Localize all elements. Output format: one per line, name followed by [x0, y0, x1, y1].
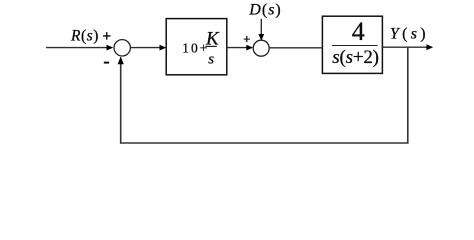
arrowhead: input into summing junction S1 [107, 45, 114, 51]
svg-text:+: + [102, 28, 111, 45]
wire: input R(s) [46, 47, 107, 49]
arrowhead: output (right) [426, 44, 433, 50]
wire: D(s) disturbance drop [260, 19, 262, 35]
summing junction S1 [114, 40, 130, 56]
sign + (S2 left input) [243, 33, 250, 47]
arrowhead: into block G1 [160, 45, 167, 51]
wire: feedback right vertical [407, 47, 409, 143]
summing junction S2 [253, 40, 269, 56]
wire: S2 to block G2 [269, 47, 322, 49]
label D(s) [248, 2, 281, 19]
svg-text:4: 4 [352, 17, 365, 46]
sign − (feedback input) [104, 62, 109, 64]
wire: G1 to summing junction S2 [227, 47, 247, 49]
label R(s) [70, 28, 99, 45]
label Y(s) [390, 26, 429, 43]
wire: feedback left vertical [120, 63, 122, 144]
node: feedback takeoff on output line [407, 47, 408, 48]
svg-text:s(s+2): s(s+2) [332, 47, 379, 68]
svg-text:Y(s): Y(s) [390, 26, 429, 43]
svg-text:D(s): D(s) [248, 2, 281, 19]
arrowhead: feedback into S1 (up) [118, 56, 124, 64]
block G2: 4/s(s+2) [322, 16, 382, 73]
wire: feedback bottom horizontal [120, 142, 409, 144]
wire: G2 to output Y(s) [382, 46, 427, 48]
block G1: 10+K/s [166, 19, 227, 75]
svg-text:s: s [208, 52, 214, 68]
wire: S1 to block G1 [130, 47, 160, 49]
arrowhead: D(s) into S2 (down) [258, 34, 264, 41]
sign + (R input) [102, 28, 111, 45]
svg-text:R(s): R(s) [70, 28, 99, 45]
arrowhead: into summing junction S2 [246, 45, 253, 51]
svg-text:+: + [243, 33, 250, 47]
